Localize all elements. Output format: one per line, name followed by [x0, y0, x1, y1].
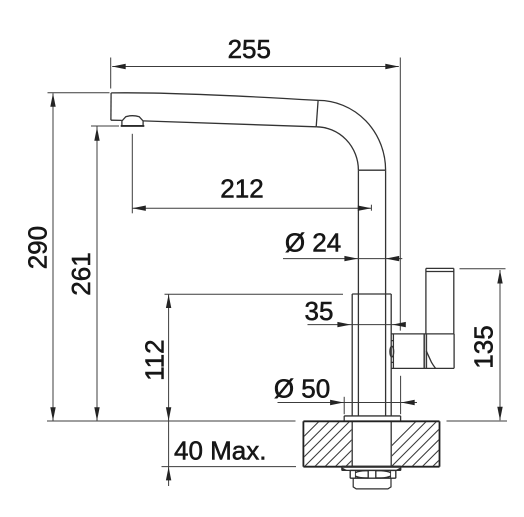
countertop bottom edge — [303, 466, 439, 468]
countertop top edge — [303, 420, 439, 422]
handle cap seam — [426, 271, 454, 273]
arrow 261 bottom — [94, 407, 99, 421]
dim 40max bottom extension — [162, 466, 297, 468]
riser pipe left edge — [357, 170, 359, 416]
handle left edge — [425, 268, 427, 334]
arrow 261 top — [94, 127, 99, 141]
spout bottom edge left segment — [111, 119, 122, 121]
arrow 35 left — [337, 322, 351, 327]
spout bottom edge right segment — [143, 121, 316, 127]
body housing right edge and shank — [390, 294, 392, 467]
dim 135 top extension — [460, 268, 506, 270]
svg-text:261: 261 — [66, 252, 96, 295]
arrow 40max bottom outside — [166, 467, 171, 481]
base flange right edge — [400, 416, 402, 421]
arrow dia24 right — [386, 256, 400, 261]
dim dia50 line — [278, 402, 418, 404]
arrow 212 right — [358, 206, 372, 211]
dim 255 right extension — [399, 58, 401, 331]
arrow 112 top — [166, 295, 171, 309]
arrow dia50 left — [330, 400, 344, 405]
arrow 135 bottom — [497, 407, 502, 421]
svg-text:212: 212 — [220, 174, 263, 204]
svg-text:40 Max.: 40 Max. — [174, 436, 267, 466]
arrow 255 right — [385, 64, 399, 69]
threaded tail piece — [353, 478, 391, 489]
countertop cross-section — [303, 421, 439, 466]
dim dia24 line — [283, 258, 402, 260]
side port and handle base bottom edge — [391, 367, 454, 369]
dim 212 left extension — [131, 134, 133, 214]
bend inner arc — [316, 127, 358, 170]
dimension lines — [47, 58, 507, 487]
dim 255 line — [112, 66, 399, 68]
arrow 212 left — [132, 206, 146, 211]
riser pipe right edge — [385, 170, 387, 416]
countertop right edge — [439, 421, 441, 466]
base flange top edge — [344, 415, 400, 417]
dim 112 and 40max shared line — [168, 295, 170, 487]
bend lower seam — [358, 169, 385, 171]
bend seam — [316, 100, 318, 126]
spout tip left edge — [110, 93, 112, 120]
dim 290 top extension — [48, 92, 110, 94]
arrowheads — [50, 64, 502, 481]
dim 212 right tick — [370, 205, 372, 211]
arrow 290 top — [50, 93, 55, 107]
svg-text:112: 112 — [140, 339, 170, 380]
dim 255 left extension — [110, 58, 112, 89]
arrow dia50 right — [401, 400, 415, 405]
dim 112 top extension — [165, 293, 344, 295]
dim 290 line — [52, 93, 54, 421]
side port flange seam — [391, 334, 393, 369]
washer end wedges — [342, 467, 401, 470]
countertop hatching left block — [263, 417, 492, 477]
handle right edge lower — [453, 334, 455, 369]
svg-text:35: 35 — [305, 296, 334, 326]
svg-text:Ø 50: Ø 50 — [274, 373, 330, 403]
dim 135 line — [499, 270, 501, 420]
arrow 255 left — [112, 64, 126, 69]
side port weld arc — [390, 346, 394, 357]
locknut — [350, 470, 396, 478]
body housing top edge — [352, 293, 391, 295]
dim 212 line — [132, 207, 371, 209]
dim dia50 left extension — [343, 397, 345, 414]
side port top and handle junction line — [391, 333, 454, 335]
handle base diagonal — [426, 351, 435, 369]
arrow 112 bottom — [166, 407, 171, 421]
svg-text:Ø 24: Ø 24 — [285, 228, 341, 258]
handle top edge — [426, 267, 454, 269]
handle base collar band — [424, 334, 426, 369]
dim dia50 right extension — [400, 376, 402, 414]
dim 135 bottom extension — [447, 420, 508, 422]
base flange left edge — [343, 416, 345, 421]
dim 35 line — [308, 324, 406, 326]
svg-text:290: 290 — [22, 226, 52, 269]
body housing left edge and shank — [351, 294, 353, 467]
arrow dia24 left — [344, 256, 358, 261]
arrow 290 bottom — [50, 407, 55, 421]
svg-text:255: 255 — [228, 34, 271, 64]
aerator bump — [122, 116, 143, 126]
handle right edge upper — [453, 268, 455, 334]
countertop left edge — [302, 421, 304, 466]
dim 261 top extension — [91, 125, 119, 127]
arrow 135 top — [497, 270, 502, 284]
spout top edge — [111, 93, 318, 101]
arrow 35 right — [392, 322, 406, 327]
countertop top extension line — [47, 420, 296, 422]
washer under countertop — [342, 467, 401, 471]
bend outer arc — [318, 100, 386, 170]
svg-text:135: 135 — [469, 325, 499, 368]
aerator bottom line — [121, 125, 145, 127]
dim 261 line — [96, 127, 98, 421]
